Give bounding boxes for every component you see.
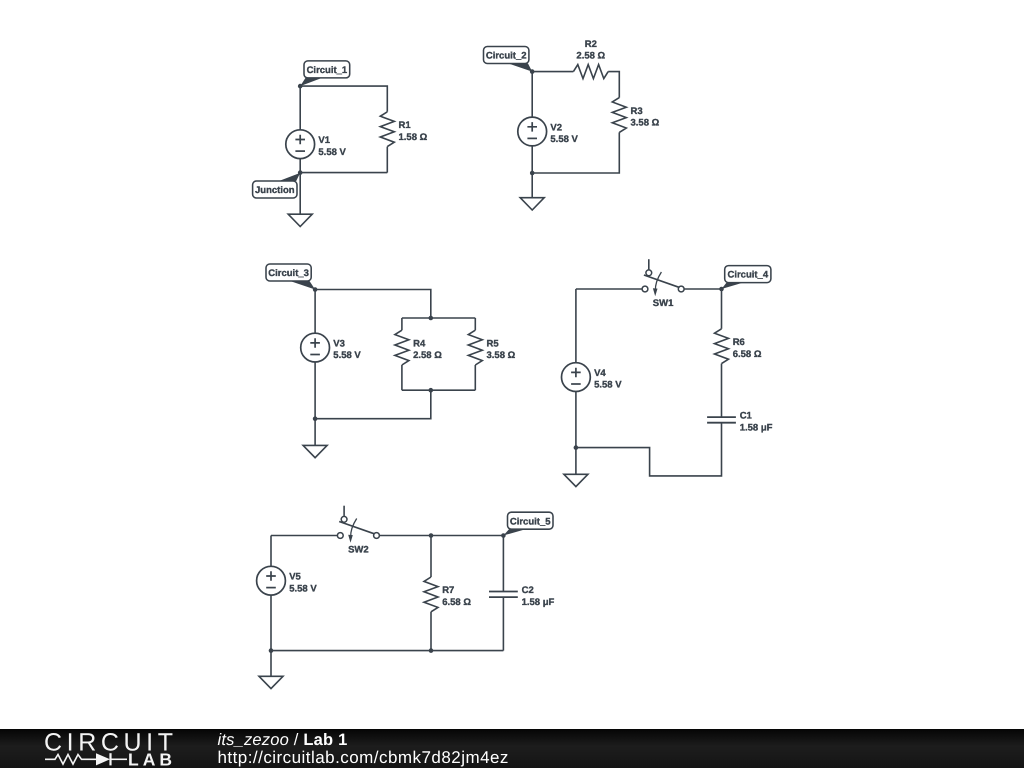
- resistor R2 2.58 &#937;: [573, 39, 608, 79]
- svg-text:R7: R7: [442, 585, 454, 596]
- resistor R3 3.58 &#937;: [612, 98, 659, 133]
- node: R7 bottom: [429, 648, 434, 653]
- svg-text:Circuit_2: Circuit_2: [486, 51, 527, 62]
- svg-text:V4: V4: [594, 368, 606, 379]
- wire: R5 bottom lead: [474, 365, 476, 390]
- svg-text:1.58 μF: 1.58 μF: [522, 597, 555, 608]
- voltage source V4 5.58 V: [562, 363, 623, 392]
- resistor R7 6.58 &#937;: [424, 577, 471, 612]
- wire: C1 to bottom rail: [576, 423, 722, 476]
- logo text LAB: [128, 750, 176, 768]
- junction node: [574, 445, 579, 450]
- wire: node to R2: [532, 71, 573, 73]
- wire: C1 top rail: [300, 86, 387, 112]
- wire: R6 top lead: [721, 289, 723, 329]
- junction node: [298, 170, 303, 175]
- wire: V3 top lead: [314, 290, 316, 334]
- wire: R7 top lead: [430, 536, 432, 578]
- voltage source V1 5.58 V: [286, 130, 347, 159]
- svg-text:SW2: SW2: [348, 545, 369, 556]
- node: flag attach: [501, 533, 506, 538]
- footer url text: [218, 748, 509, 767]
- svg-text:Circuit_5: Circuit_5: [510, 516, 551, 527]
- wire: C3 bottom rail: [315, 390, 431, 419]
- resistor R1 1.58 &#937;: [380, 112, 427, 147]
- svg-text:V1: V1: [318, 135, 330, 146]
- wire: C3 top rail: [315, 290, 431, 319]
- svg-text:C2: C2: [522, 585, 534, 596]
- wire: C5 bottom rail: [271, 650, 503, 652]
- resistor R4 2.58 &#937;: [395, 330, 442, 365]
- node flag Circuit_4: [722, 266, 771, 289]
- svg-text:Circuit_4: Circuit_4: [727, 270, 768, 281]
- svg-text:LAB: LAB: [128, 750, 176, 768]
- ground: [303, 419, 327, 458]
- svg-text:R1: R1: [399, 120, 412, 131]
- wire: V2 top lead: [531, 72, 533, 118]
- resistor R6 6.58 &#937;: [715, 329, 762, 364]
- svg-text:5.58 V: 5.58 V: [333, 350, 361, 361]
- node: flag attach: [719, 287, 724, 292]
- svg-text:1.58 μF: 1.58 μF: [740, 423, 773, 434]
- capacitor C1 1.58 &#956;F: [707, 411, 773, 434]
- ground: [564, 448, 588, 487]
- svg-text:its_zezoo / Lab 1: its_zezoo / Lab 1: [218, 731, 348, 749]
- svg-text:R6: R6: [733, 337, 745, 348]
- footer bar: [0, 729, 1024, 768]
- wire: V5 to SW2: [271, 535, 337, 537]
- svg-text:3.58 Ω: 3.58 Ω: [487, 350, 516, 361]
- switch SW2: [337, 506, 379, 556]
- wire: R5 top lead: [474, 318, 476, 330]
- footer title text: [218, 731, 348, 749]
- voltage source V2 5.58 V: [518, 117, 579, 146]
- wire: R2 to R3: [608, 72, 619, 98]
- svg-text:3.58 Ω: 3.58 Ω: [631, 118, 660, 129]
- node flag Circuit_1: [300, 61, 350, 86]
- CircuitLab logo text CIRCUIT: [44, 729, 178, 757]
- ground: [520, 173, 544, 210]
- svg-text:SW1: SW1: [653, 298, 674, 309]
- wire: R6 to C1: [721, 364, 723, 418]
- node: flag attach: [298, 84, 303, 89]
- wire: V5 top lead: [270, 536, 272, 567]
- resistor R5 3.58 &#937;: [468, 330, 515, 365]
- wire: V5 bottom lead: [270, 595, 272, 651]
- node flag Junction: [253, 173, 301, 198]
- node: flag attach: [530, 69, 535, 74]
- svg-text:V5: V5: [289, 572, 301, 583]
- wire: R7 bottom lead: [430, 612, 432, 651]
- svg-text:6.58 Ω: 6.58 Ω: [442, 597, 471, 608]
- svg-text:2.58 Ω: 2.58 Ω: [576, 51, 605, 62]
- node flag Circuit_2: [484, 47, 533, 72]
- logo resistor-diode symbol: [45, 753, 127, 765]
- svg-text:R5: R5: [487, 338, 500, 349]
- node: bus top: [429, 316, 434, 321]
- node: R7 tap: [429, 533, 434, 538]
- svg-text:R3: R3: [631, 106, 643, 117]
- node flag Circuit_3: [266, 264, 315, 290]
- switch SW1: [642, 259, 684, 309]
- junction node: [530, 171, 535, 176]
- svg-text:2.58 Ω: 2.58 Ω: [413, 350, 442, 361]
- svg-text:Circuit_1: Circuit_1: [307, 65, 348, 76]
- voltage source V5 5.58 V: [257, 566, 318, 595]
- svg-text:5.58 V: 5.58 V: [594, 380, 622, 391]
- wire: parallel bottom bus: [402, 389, 475, 391]
- node: flag attach: [313, 287, 318, 292]
- wire: R4 bottom lead: [401, 365, 403, 390]
- ground: [288, 173, 312, 227]
- wire: R1 bottom lead: [386, 147, 388, 173]
- wire: R3 to bottom rail: [532, 132, 619, 173]
- wire: V2 bottom lead: [531, 146, 533, 173]
- wire: V1 top lead: [299, 86, 301, 130]
- svg-text:C1: C1: [740, 411, 753, 422]
- node flag Circuit_5: [503, 512, 553, 535]
- ground: [259, 651, 283, 689]
- wire: V4 top lead: [575, 289, 577, 363]
- wire: C1 bottom rail: [300, 172, 387, 174]
- wire: parallel top bus: [402, 317, 475, 319]
- wire: V3 bottom lead: [314, 362, 316, 419]
- svg-text:V3: V3: [333, 338, 345, 349]
- svg-text:R4: R4: [413, 338, 426, 349]
- wire: R4 top lead: [401, 318, 403, 330]
- svg-text:1.58 Ω: 1.58 Ω: [399, 132, 428, 143]
- wire: C2 bottom lead: [502, 597, 504, 651]
- wire: SW1 to node: [684, 288, 721, 290]
- wire: V4 to SW1: [576, 288, 642, 290]
- svg-text:Junction: Junction: [255, 185, 295, 196]
- capacitor C2 1.58 &#956;F: [489, 585, 555, 608]
- junction node: [313, 416, 318, 421]
- svg-text:V2: V2: [550, 122, 562, 133]
- svg-text:5.58 V: 5.58 V: [550, 134, 578, 145]
- svg-text:R2: R2: [585, 39, 597, 50]
- voltage source V3 5.58 V: [301, 333, 362, 362]
- svg-text:Circuit_3: Circuit_3: [268, 268, 309, 279]
- wire: SW2 to node: [379, 535, 503, 537]
- wire: V4 bottom lead: [575, 392, 577, 448]
- svg-text:5.58 V: 5.58 V: [289, 583, 317, 594]
- node: bus bottom: [429, 388, 434, 393]
- svg-text:5.58 V: 5.58 V: [318, 147, 346, 158]
- junction node: [269, 648, 274, 653]
- wire: C2 top lead: [502, 536, 504, 592]
- wire: V1 bottom lead: [299, 159, 301, 173]
- svg-text:http://circuitlab.com/cbmk7d82: http://circuitlab.com/cbmk7d82jm4ez: [218, 748, 509, 767]
- svg-text:6.58 Ω: 6.58 Ω: [733, 349, 762, 360]
